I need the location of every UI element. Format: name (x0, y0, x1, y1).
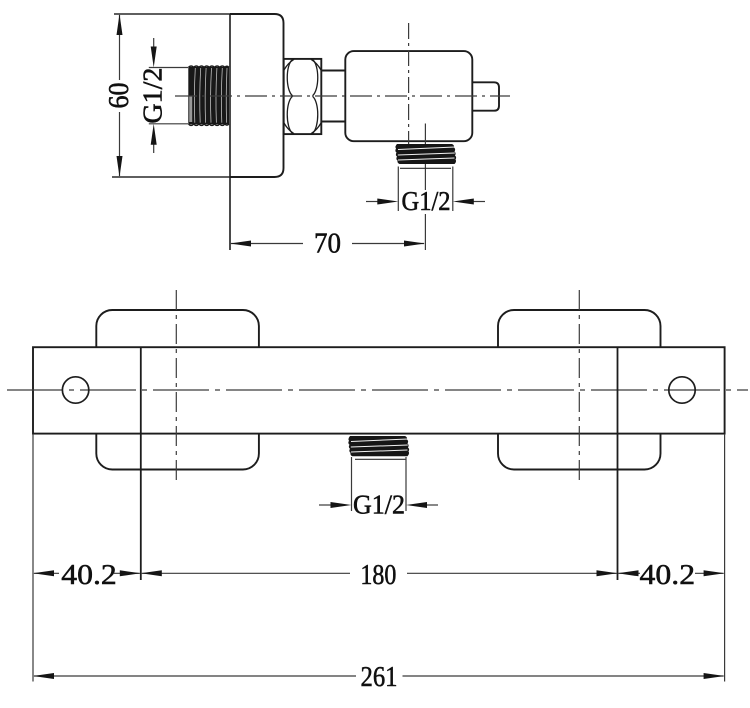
svg-text:180: 180 (360, 559, 396, 591)
dim 60 arrow down (117, 156, 123, 177)
center outlet extension line right (405, 457, 407, 511)
left screw hole (62, 377, 88, 403)
right bar-end extension line (724, 434, 726, 682)
inlet thread G1/2 hatch (188, 66, 229, 125)
dim 60 line (119, 15, 121, 176)
bar horizontal centerline (7, 389, 748, 391)
center outlet thread hatch (bottom view) (348, 436, 409, 459)
center outlet extension line left (351, 457, 353, 511)
svg-text:60: 60 (103, 83, 135, 109)
top view horizontal centerline (175, 95, 510, 97)
dim 180 arrows (141, 570, 162, 576)
G1/2 inlet bottom extension line (149, 123, 188, 125)
valve body (345, 51, 472, 141)
G1/2 outlet dim left arrow (366, 201, 380, 203)
G1/2 inlet upper arrow (153, 38, 155, 50)
bar body (covers block edges behind it) (33, 347, 725, 433)
left bar-end extension line (32, 434, 34, 682)
connecting shaft (321, 70, 345, 72)
svg-text:G1/2: G1/2 (138, 68, 168, 124)
G1/2 inlet top extension line (149, 67, 188, 69)
left mounting block (96, 310, 259, 470)
dim 60 top extension line (114, 13, 230, 15)
dim 40.2 right line (619, 572, 724, 574)
right block vertical centerline (578, 290, 580, 483)
G1/2 inlet lower arrow (153, 141, 155, 153)
svg-text:70: 70 (314, 228, 341, 260)
hex nut (284, 59, 322, 134)
wall plate body (230, 14, 284, 177)
outlet extension line left (397, 167, 399, 212)
outlet extension line right (452, 167, 454, 212)
dim 261 line (34, 675, 724, 677)
G1/2 outlet dim right arrow (471, 201, 485, 203)
svg-text:40.2: 40.2 (640, 559, 696, 591)
dim 60 bottom extension line (112, 176, 230, 178)
dim 70 left arrow (230, 241, 251, 247)
G1/2 outlet text (400, 190, 452, 214)
dim 180 line (142, 572, 617, 574)
dim 40.2 left line (34, 572, 140, 574)
svg-text:G1/2: G1/2 (402, 186, 451, 216)
left block vertical centerline (175, 290, 177, 483)
dim 261 arrows (33, 673, 54, 679)
right inlet reference line + extension (617, 347, 619, 580)
outlet thread G1/2 hatch (top view) (395, 144, 456, 168)
dim 70 line (231, 243, 424, 245)
left inlet reference line + extension (140, 347, 142, 580)
G1/2 center dim right arrow (424, 504, 438, 506)
outlet centerline / 70 extension (424, 124, 426, 251)
svg-text:G1/2: G1/2 (353, 490, 405, 520)
dim 70 right arrow (404, 241, 425, 247)
svg-text:261: 261 (361, 661, 398, 693)
dim 40.2 left arrows (33, 570, 54, 576)
valve body vertical centerline (408, 23, 410, 163)
dim 60 arrow up (117, 14, 123, 35)
svg-text:40.2: 40.2 (61, 559, 117, 591)
right screw hole (669, 377, 695, 403)
wall plate left edge + 70 extension (229, 14, 231, 250)
G1/2 center dim left arrow (319, 504, 333, 506)
outlet stub right (472, 82, 499, 110)
dim 40.2 right arrows (618, 570, 639, 576)
right mounting block (498, 310, 661, 470)
